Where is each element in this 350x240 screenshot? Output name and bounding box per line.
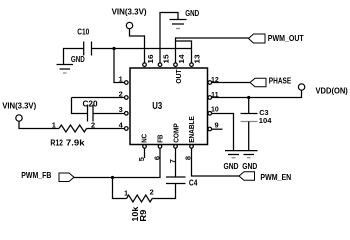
svg-text:VIN(3.3V): VIN(3.3V)	[112, 7, 147, 17]
svg-text:7.9k: 7.9k	[66, 137, 85, 147]
svg-text:2: 2	[91, 120, 95, 129]
terminal VIN(3.3V) left circle	[16, 115, 22, 121]
pin circles bottom (5,6,7,8)	[143, 145, 194, 149]
svg-text:U3: U3	[152, 101, 162, 112]
svg-text:3: 3	[119, 105, 123, 114]
resistor R12 zigzag	[59, 125, 87, 132]
wire C3 upper lead	[248, 98, 250, 114]
svg-text:10: 10	[211, 105, 219, 114]
svg-text:PWM_OUT: PWM_OUT	[268, 33, 305, 43]
capacitor C4 plates	[166, 183, 186, 185]
junction dot PWM_FB / FB pin	[111, 176, 114, 179]
wire pin 2	[72, 97, 125, 99]
svg-text:R9: R9	[138, 209, 148, 221]
pin circles top (16,15,14,13)	[143, 63, 194, 67]
wire VIN left to R12	[19, 121, 59, 129]
pin circles right (12,11,10,9)	[208, 81, 212, 131]
terminal VDD(ON) circle	[298, 84, 304, 90]
svg-text:C20: C20	[83, 99, 98, 109]
svg-text:VDD(ON): VDD(ON)	[316, 86, 348, 96]
junction dot C10 rail / pin 1	[112, 47, 115, 50]
connector tag PWM_EN	[239, 172, 255, 181]
svg-text:R12: R12	[50, 137, 63, 147]
wire pin 9 stub	[212, 128, 223, 130]
wire branch to R9	[113, 178, 127, 199]
svg-text:C4: C4	[189, 178, 198, 188]
wire pin 8 to PWM_EN	[192, 148, 240, 176]
svg-text:15: 15	[162, 54, 171, 63]
wire C20 to pin 3	[93, 113, 125, 115]
svg-text:ENABLE: ENABLE	[189, 116, 196, 143]
wire R12 to pin 4	[87, 128, 125, 130]
svg-text:PWM_EN: PWM_EN	[260, 172, 291, 182]
svg-text:9: 9	[215, 121, 219, 130]
wire pin 10 to ground	[212, 114, 234, 151]
svg-text:GND: GND	[185, 8, 199, 18]
wire pin 14 to PWM_OUT	[176, 38, 249, 63]
connector tag PWM_FB	[59, 173, 74, 182]
wire pin 11 to VDD(ON)	[212, 90, 302, 98]
resistor R9 zigzag	[127, 195, 153, 202]
ground GND GND shared bar	[225, 150, 258, 152]
svg-text:2: 2	[150, 187, 154, 196]
wire C10 left lead	[64, 49, 84, 65]
capacitor C10 plates	[83, 42, 85, 56]
svg-text:GND: GND	[242, 161, 257, 171]
wire pin 13 tie	[176, 41, 192, 63]
svg-text:16: 16	[146, 54, 155, 63]
svg-text:104: 104	[259, 116, 273, 125]
svg-text:1: 1	[52, 120, 56, 129]
IC U3 body	[130, 68, 208, 145]
capacitor C3 plates	[241, 113, 258, 115]
svg-text:GND: GND	[71, 54, 85, 64]
svg-text:PWM_FB: PWM_FB	[21, 170, 51, 180]
wire R9 to C4	[152, 184, 175, 199]
wire pin 12 to PHASE	[212, 82, 251, 84]
wire pin 5 stub	[144, 148, 146, 158]
terminal VIN(3.3V) top circle	[126, 22, 132, 28]
svg-text:VIN(3.3V): VIN(3.3V)	[2, 100, 36, 110]
svg-text:1: 1	[124, 188, 128, 197]
ground top	[170, 19, 187, 21]
wire VIN top stub	[130, 29, 145, 63]
connector tag PWM_OUT	[249, 34, 266, 43]
svg-text:14: 14	[177, 53, 186, 63]
wire C4 upper lead pin 7	[175, 148, 177, 177]
wire pin 6 to PWM_FB	[74, 148, 160, 177]
junction dot pin 11 / C3	[247, 96, 250, 99]
svg-text:OUT: OUT	[174, 69, 183, 84]
pin circles left (1-4)	[125, 81, 129, 131]
svg-text:COMP: COMP	[173, 123, 180, 143]
wire C20 left leg	[72, 98, 88, 114]
wire pin 15 to GND top	[160, 13, 178, 63]
svg-text:FB: FB	[157, 135, 164, 143]
svg-text:13: 13	[193, 54, 202, 63]
svg-text:NC: NC	[142, 134, 149, 143]
svg-text:GND: GND	[224, 161, 239, 171]
svg-text:PHASE: PHASE	[269, 76, 292, 86]
svg-text:C10: C10	[77, 26, 89, 36]
wire branch to pin 1	[114, 49, 125, 83]
ground left of C10	[57, 64, 74, 66]
wire C10 rail	[92, 48, 192, 50]
capacitor C20 plates	[87, 105, 89, 122]
wire C3 lower lead	[248, 122, 250, 152]
connector tag PHASE	[250, 78, 266, 87]
